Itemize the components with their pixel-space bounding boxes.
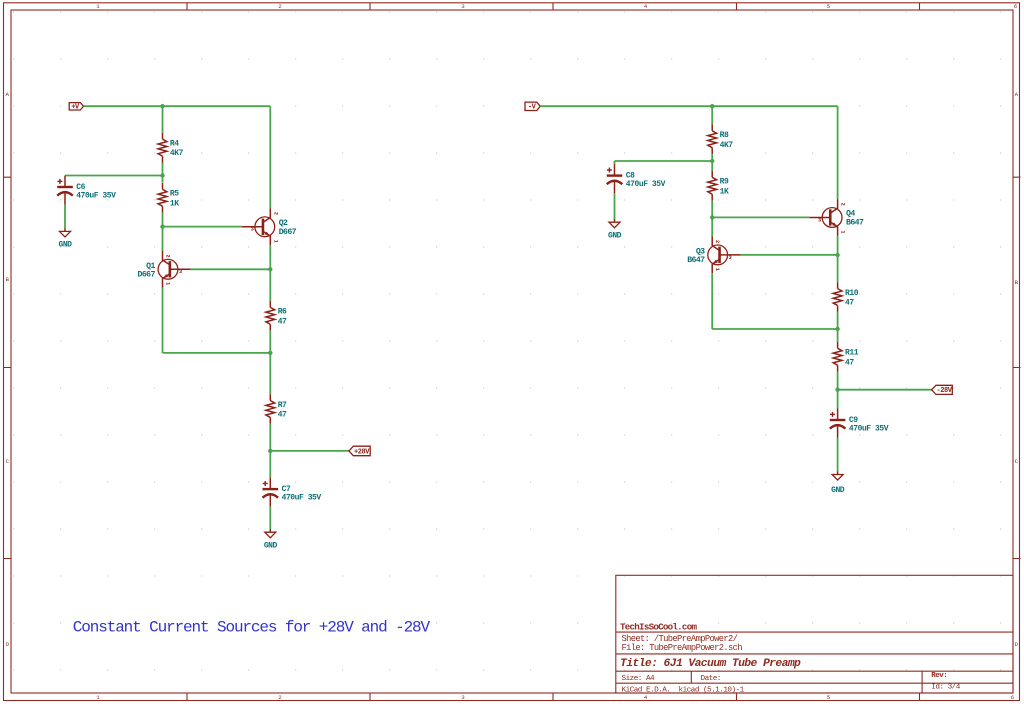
svg-text:3: 3	[818, 217, 821, 223]
resistor R6	[266, 301, 275, 331]
svg-text:File: TubePreAmpPower2.sch: File: TubePreAmpPower2.sch	[622, 643, 743, 653]
svg-text:D: D	[1015, 641, 1019, 648]
svg-text:R10: R10	[845, 289, 859, 298]
ground below C7	[265, 529, 276, 538]
svg-text:Size: A4: Size: A4	[622, 675, 656, 683]
row ticks right	[1013, 177, 1021, 558]
svg-text:R4: R4	[170, 140, 179, 149]
svg-text:Q2: Q2	[279, 219, 288, 228]
svg-text:+V: +V	[71, 104, 80, 112]
svg-text:Rev:: Rev:	[931, 672, 947, 680]
wire R7 to +28V node	[269, 424, 271, 451]
svg-text:R6: R6	[278, 308, 287, 317]
svg-text:6: 6	[1014, 3, 1018, 10]
svg-text:470uF 35V: 470uF 35V	[76, 191, 116, 200]
junction at R4 top	[160, 104, 164, 108]
wire node to R11	[837, 329, 839, 342]
svg-text:3: 3	[461, 3, 465, 10]
junction Q4 emitter/R10/Q3 base	[835, 253, 839, 257]
svg-text:D667: D667	[138, 270, 156, 279]
resistor R7	[266, 394, 275, 424]
svg-text:1: 1	[165, 282, 171, 285]
wire to +28V label	[270, 450, 349, 452]
transistor Q1	[158, 251, 191, 288]
svg-text:R11: R11	[845, 349, 859, 358]
column numbers top	[96, 3, 1018, 10]
svg-text:R9: R9	[720, 178, 729, 187]
row letters left	[5, 91, 9, 648]
svg-text:4K7: 4K7	[170, 149, 184, 158]
capacitor C8	[607, 164, 623, 193]
svg-text:2: 2	[278, 3, 282, 10]
transistor Q3	[708, 237, 741, 274]
svg-text:B: B	[5, 276, 9, 283]
svg-text:R7: R7	[278, 401, 287, 410]
svg-text:1: 1	[96, 694, 100, 701]
wire Q3 emitter to R10 bottom node	[712, 328, 837, 330]
svg-text:D: D	[5, 641, 9, 648]
wire R10 to lower node	[837, 312, 839, 329]
capacitor C7	[263, 478, 279, 507]
junction R10/R11/return wire	[835, 327, 839, 331]
svg-text:1: 1	[96, 3, 100, 10]
wire node to R7	[269, 353, 271, 394]
title block outline	[616, 575, 1013, 693]
resistor R9	[708, 171, 717, 201]
svg-text:5: 5	[827, 3, 831, 10]
-V	[525, 102, 540, 110]
ground below C9	[832, 471, 843, 480]
resistor R10	[833, 282, 842, 312]
global label -28V	[932, 385, 953, 394]
row ticks left	[4, 177, 12, 558]
wire base node to Q2 base	[163, 226, 243, 228]
svg-text:A: A	[5, 91, 9, 98]
svg-text:KiCad E.D.A. kicad (5.1.10)-1: KiCad E.D.A. kicad (5.1.10)-1	[622, 687, 745, 695]
svg-text:-28V: -28V	[936, 387, 952, 395]
row letters right	[1015, 91, 1019, 648]
wire Q1 base to right branch	[191, 268, 270, 270]
column ticks top	[187, 3, 920, 10]
junction R4/R5/C6	[160, 173, 164, 177]
svg-text:Date:: Date:	[701, 675, 721, 683]
wire C6 to GND	[64, 205, 66, 229]
junction -28V tap	[835, 388, 839, 392]
wire junction to C6	[65, 175, 163, 177]
wire R4 to junction	[162, 163, 164, 176]
capacitor C6	[57, 176, 73, 205]
svg-text:3: 3	[179, 269, 182, 275]
svg-text:2: 2	[714, 240, 720, 243]
svg-text:3: 3	[251, 227, 254, 233]
wire right branch down to Q2 collector	[269, 106, 271, 208]
svg-text:B: B	[1015, 279, 1019, 286]
wire base node to Q4 base	[712, 216, 809, 218]
svg-text:47: 47	[845, 358, 854, 367]
svg-text:1: 1	[840, 230, 846, 233]
svg-text:+28V: +28V	[354, 448, 370, 456]
svg-text:2: 2	[840, 203, 846, 206]
svg-text:47: 47	[278, 411, 287, 420]
svg-text:Title: 6J1 Vacuum Tube Preamp: Title: 6J1 Vacuum Tube Preamp	[620, 658, 801, 670]
wire C8 to GND	[614, 193, 616, 219]
junction Q2 emitter/R6/Q1 base	[268, 267, 272, 271]
svg-text:3: 3	[729, 255, 732, 261]
junction R5/Q2 base/Q1 collector	[160, 224, 164, 228]
svg-text:GND: GND	[608, 232, 622, 241]
wire Q3 collector	[711, 217, 713, 236]
column numbers bottom	[96, 694, 1015, 701]
wire +V junction down to R4	[162, 106, 164, 133]
resistor R8	[708, 124, 717, 154]
svg-text:Constant Current Sources for +: Constant Current Sources for +28V and -2…	[73, 619, 431, 637]
svg-text:GND: GND	[831, 486, 845, 495]
svg-text:47: 47	[278, 317, 287, 326]
svg-text:3: 3	[461, 694, 465, 701]
svg-text:TechIsSoCool.com: TechIsSoCool.com	[620, 621, 697, 632]
svg-text:D667: D667	[279, 228, 297, 237]
wire R9 to base node	[711, 201, 713, 218]
svg-text:R8: R8	[720, 131, 729, 140]
svg-text:2: 2	[278, 694, 282, 701]
wire junction down to R5	[162, 176, 164, 183]
svg-text:4K7: 4K7	[720, 141, 734, 150]
wire -V junction down to R8	[711, 106, 713, 124]
junction R8/R9/C8	[710, 159, 714, 163]
svg-text:1: 1	[714, 268, 720, 271]
wire R11 to -28V node	[837, 372, 839, 390]
wire R8 to junction	[711, 154, 713, 161]
svg-text:A: A	[1015, 91, 1019, 98]
svg-text:2: 2	[272, 212, 278, 215]
wire right rail down to Q4 collector	[837, 106, 839, 199]
column ticks bottom	[187, 693, 920, 701]
ground below C8	[609, 219, 620, 228]
wire to -28V label	[838, 389, 932, 391]
resistor R4	[158, 133, 167, 163]
svg-text:Q4: Q4	[846, 210, 855, 219]
svg-text:2: 2	[165, 254, 171, 257]
svg-text:470uF 35V: 470uF 35V	[626, 180, 666, 189]
svg-text:GND: GND	[264, 542, 278, 551]
+V	[69, 103, 83, 110]
wire node down to C7	[269, 451, 271, 478]
wire node down to C9	[837, 390, 839, 409]
wire -V to right rail	[540, 105, 837, 107]
junction R9/Q4 base/Q3 collector	[710, 215, 714, 219]
svg-text:1K: 1K	[170, 199, 179, 208]
wire R5 to base node	[162, 213, 164, 227]
svg-text:470uF 35V: 470uF 35V	[282, 494, 322, 503]
wire Q1 emitter down	[162, 288, 164, 353]
svg-text:5: 5	[827, 694, 831, 701]
ground below C6	[60, 228, 71, 237]
svg-text:1: 1	[272, 240, 278, 243]
wire Q1 collector	[162, 227, 164, 251]
capacitor C9	[830, 409, 846, 438]
resistor R11	[833, 342, 842, 372]
wire C9 to GND	[837, 438, 839, 472]
transistor Q2	[242, 208, 275, 245]
wire C8 drop	[614, 161, 616, 164]
junction at R8 top	[710, 104, 714, 108]
svg-text:C: C	[1015, 458, 1019, 465]
wire Q3 base to right rail	[741, 254, 838, 256]
wire Q2 emitter to R6	[269, 245, 271, 301]
svg-text:B647: B647	[846, 219, 864, 228]
wire R6 to lower node	[269, 331, 271, 353]
svg-text:R5: R5	[170, 190, 179, 199]
title block row lines	[616, 632, 1013, 693]
resistor R5	[158, 183, 167, 213]
junction +28V tap	[268, 449, 272, 453]
svg-text:4: 4	[644, 3, 648, 10]
svg-text:GND: GND	[59, 241, 73, 250]
svg-text:-V: -V	[528, 104, 537, 112]
svg-text:4: 4	[644, 694, 648, 701]
svg-text:470uF 35V: 470uF 35V	[849, 424, 889, 433]
svg-text:6: 6	[1011, 694, 1015, 701]
wire Q1 emitter to R6 bottom node	[163, 352, 271, 354]
transistor Q4	[809, 199, 842, 236]
svg-text:B647: B647	[687, 256, 705, 265]
wire Q4 emitter to R10	[837, 236, 839, 282]
wire C7 to GND	[269, 507, 271, 529]
svg-text:Id: 3/4: Id: 3/4	[931, 683, 960, 691]
svg-text:1K: 1K	[720, 187, 729, 196]
svg-text:C: C	[5, 458, 9, 465]
global label +28V	[349, 446, 370, 456]
wire +V to right branch	[84, 105, 271, 107]
junction R6/R7/return wire	[268, 351, 272, 355]
svg-text:47: 47	[845, 299, 854, 308]
wire junction to C8	[615, 160, 713, 162]
wire junction down to R9	[711, 161, 713, 171]
wire Q3 emitter down	[711, 273, 713, 329]
